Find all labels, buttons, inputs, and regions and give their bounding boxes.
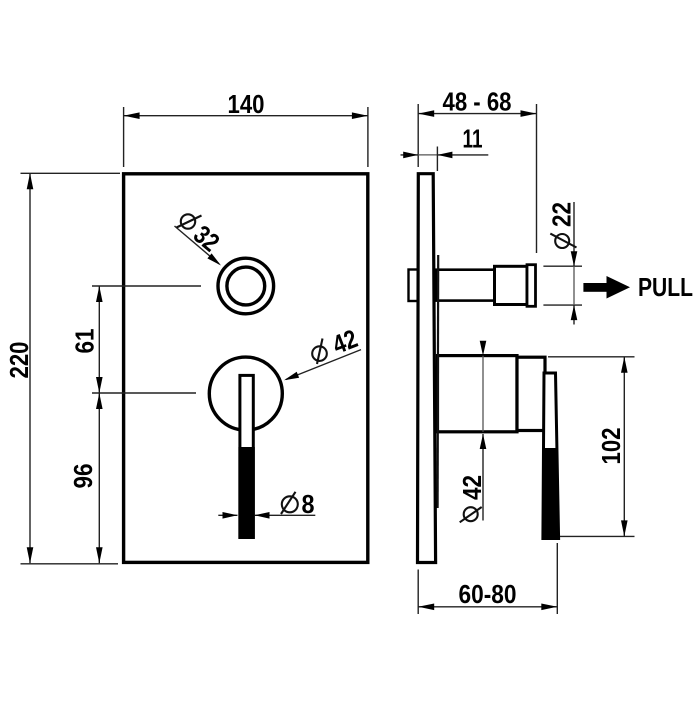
label ∅32 arrowhead [207,253,221,265]
svg-text:61: 61 [69,329,99,354]
dimension 61 line [98,286,100,393]
side view: trim plate [418,174,436,563]
dimension 102 extension lines [548,356,635,358]
dimension 61 extension line top (center line of ∅32) [92,285,201,287]
dimension 102 arrows [621,357,628,373]
dimension 220 extension lines [21,172,121,174]
label ∅42 leader line [286,350,361,380]
side view: valve body end cap [517,357,545,430]
side view: diverter knob end cap [527,265,536,307]
dimension ∅8 left arrow [218,514,237,516]
dimension ∅42 side: bottom outside arrow with tail [482,434,484,521]
side view: diverter knob shaft [436,270,495,301]
PULL arrow [583,283,607,292]
dimension 102 line [623,357,625,537]
side view: diverter knob collar [495,266,528,304]
dimension 140 arrows [124,112,140,119]
dimension ∅42 side: top outside arrow [480,341,487,356]
front plate rectangle [124,174,368,563]
svg-text:220: 220 [4,342,34,379]
dimension 60-80 arrows [418,604,434,611]
lever escutcheon circle (∅42) [209,357,282,430]
svg-text:PULL: PULL [638,272,693,302]
svg-text:48 - 68: 48 - 68 [443,87,512,117]
side view: wall flange edge behind plate [437,255,440,508]
dimension 11 line left arrow [401,154,419,156]
side view: handle lever (black grip) [543,448,559,539]
dimension ∅22 diameter symbol [555,234,569,248]
svg-text:60-80: 60-80 [459,579,517,609]
dimension 220 line [29,173,31,563]
side view: valve body [438,356,518,432]
label ∅32 leader line [175,226,220,264]
dimension ∅8 diameter symbol [282,496,298,512]
knob ring inner (∅32) [227,267,265,305]
dimension 11 right extension line [436,147,438,172]
dimension 60-80 line [418,606,557,608]
svg-text:11: 11 [463,124,483,154]
svg-text:96: 96 [68,464,98,489]
dimension ∅42 side: diameter symbol [464,507,478,521]
dimension 140 extension lines [123,107,125,167]
svg-text:22: 22 [547,202,577,227]
svg-text:42: 42 [457,475,487,500]
lever handle front view [240,375,253,537]
dimension ∅22 line with outside arrows [573,202,575,266]
svg-text:140: 140 [228,89,265,119]
dimension 48-68 line [418,113,536,115]
label ∅32 diameter symbol [181,214,195,228]
dimension 48-68 extension lines [417,104,419,167]
dimension ∅8 right arrow with tail [255,514,316,516]
dimension 96 line [98,393,100,563]
dimension 140 line [124,115,368,117]
knob ring outer (∅32) [218,258,274,314]
side view: handle lever (white part) [543,373,559,539]
dimension 60-80 extension lines [417,570,419,615]
dimension 48-68 arrows [418,110,434,117]
dimension 11 right arrow with tail [437,154,488,156]
dimension 220 arrows [27,173,34,189]
label ∅42 diameter symbol [312,346,327,361]
dimension 61/96 extension line middle (center line of ∅42) [92,392,196,394]
dimension 61 arrows [96,286,103,302]
dimension 11 middle segment [418,154,437,156]
svg-text:8: 8 [302,489,315,519]
side view: valve stem through plate (left of plate) [409,270,419,302]
dimension ∅22 extension lines [543,265,582,267]
label ∅42 arrowhead [284,372,299,381]
dimension 96 arrows [96,393,103,409]
svg-text:102: 102 [596,428,626,465]
dimension ∅42 side: through line [482,356,484,432]
